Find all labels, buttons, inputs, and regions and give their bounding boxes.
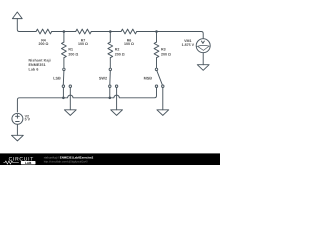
svg-text:MSB: MSB — [144, 77, 153, 81]
voltmeter VM1 body — [196, 39, 210, 53]
wire SW2 left throw to 5V bus — [109, 88, 111, 98]
wire 5V bus from V2 to MSB left throw (with hops) — [17, 88, 156, 112]
resistor R6 zigzag — [121, 29, 137, 34]
junction node bus/LSB — [62, 97, 65, 100]
wire rail segment R4 to R7 — [52, 31, 76, 33]
svg-text:200 Ω: 200 Ω — [68, 52, 78, 56]
ground at MSB right throw — [157, 110, 169, 116]
svg-text:LAB: LAB — [25, 161, 32, 165]
wire VM1 to ground — [202, 53, 204, 65]
wire R1 to switch LSB — [63, 58, 65, 68]
svg-text:Nishant Kaji: Nishant Kaji — [29, 59, 51, 63]
switch SW2 common terminal — [109, 68, 111, 70]
svg-text:200 Ω: 200 Ω — [161, 52, 171, 56]
svg-text:ENME351: ENME351 — [29, 63, 46, 67]
CircuitLab logo wordmark — [3, 157, 35, 165]
junction node rail/R2 — [109, 30, 112, 33]
V2 plus sign — [16, 114, 20, 118]
switch SW2 left throw terminal — [109, 85, 111, 87]
wire column 2 rail to R2 — [109, 32, 111, 43]
switch MSB common terminal — [155, 68, 157, 70]
svg-text:R3: R3 — [161, 47, 166, 51]
wire R2 to switch SW2 — [109, 58, 111, 68]
ground at LSB right throw — [64, 110, 76, 116]
svg-text:http://circuitlab.com/c/j5dg4y: http://circuitlab.com/c/j5dg4ysu82w6/ — [44, 161, 88, 164]
svg-text:1.875 V: 1.875 V — [182, 43, 195, 47]
svg-text:5 V: 5 V — [25, 118, 31, 122]
resistor R1 zigzag (vertical) — [62, 42, 67, 58]
switch SW2 lever — [109, 71, 112, 85]
power flag +V (up arrow) — [12, 12, 22, 19]
switch MSB lever — [157, 71, 163, 86]
resistor R7 zigzag — [76, 29, 92, 34]
switch LSB common terminal — [63, 68, 65, 70]
svg-text:200 Ω: 200 Ω — [39, 42, 49, 46]
ground at SW2 right throw — [111, 110, 123, 116]
switch MSB right throw terminal — [162, 85, 164, 87]
V2 minus sign — [16, 121, 20, 123]
wire from +V down to top rail — [17, 19, 36, 32]
VM1 gauge arc — [197, 45, 210, 46]
svg-text:100 Ω: 100 Ω — [78, 42, 88, 46]
svg-text:nishantkaji / ENME351Lab6Exerc: nishantkaji / ENME351Lab6Exercise2 — [44, 156, 94, 160]
VM1 needle — [198, 47, 209, 51]
svg-text:200 Ω: 200 Ω — [115, 52, 125, 56]
switch SW2 right throw terminal — [115, 85, 117, 87]
wire V2 to ground — [16, 124, 18, 135]
junction node bus/SW2 — [109, 97, 112, 100]
svg-text:LSB: LSB — [53, 77, 61, 81]
svg-text:SW2: SW2 — [99, 77, 107, 81]
switch LSB lever — [62, 71, 65, 85]
resistor R4 zigzag — [36, 29, 52, 34]
ground below V2 — [12, 135, 24, 141]
svg-text:R1: R1 — [68, 47, 73, 51]
wire MSB right throw to ground — [162, 88, 164, 110]
svg-text:Lab 6: Lab 6 — [29, 67, 39, 71]
annotation text block (author) — [29, 59, 51, 72]
wire rail segment R6 to voltmeter — [137, 32, 204, 39]
switch MSB left throw terminal — [155, 85, 157, 87]
switch LSB right throw terminal — [69, 85, 71, 87]
wire LSB right throw to ground — [69, 88, 71, 110]
svg-text:100 Ω: 100 Ω — [124, 42, 134, 46]
wire R3 to switch MSB — [156, 58, 158, 68]
junction node rail/R3 — [155, 30, 158, 33]
switch LSB left throw terminal — [62, 85, 64, 87]
resistor R3 zigzag (vertical) — [154, 42, 159, 58]
voltmeter VM1 V letter — [201, 41, 204, 44]
svg-text:R2: R2 — [115, 47, 120, 51]
wire rail segment R7 to R6 — [91, 31, 121, 33]
ground below VM1 — [197, 65, 209, 71]
voltage source V2 body — [12, 113, 23, 124]
wire SW2 right throw to ground — [116, 88, 118, 110]
junction node rail/R1 — [63, 30, 66, 33]
resistor R2 zigzag (vertical) — [108, 42, 113, 58]
wire column 1 rail to R1 — [63, 32, 65, 43]
wire column 3 rail to R3 — [156, 32, 158, 43]
footer bar — [0, 153, 220, 165]
wire LSB left throw to 5V bus — [62, 88, 64, 98]
